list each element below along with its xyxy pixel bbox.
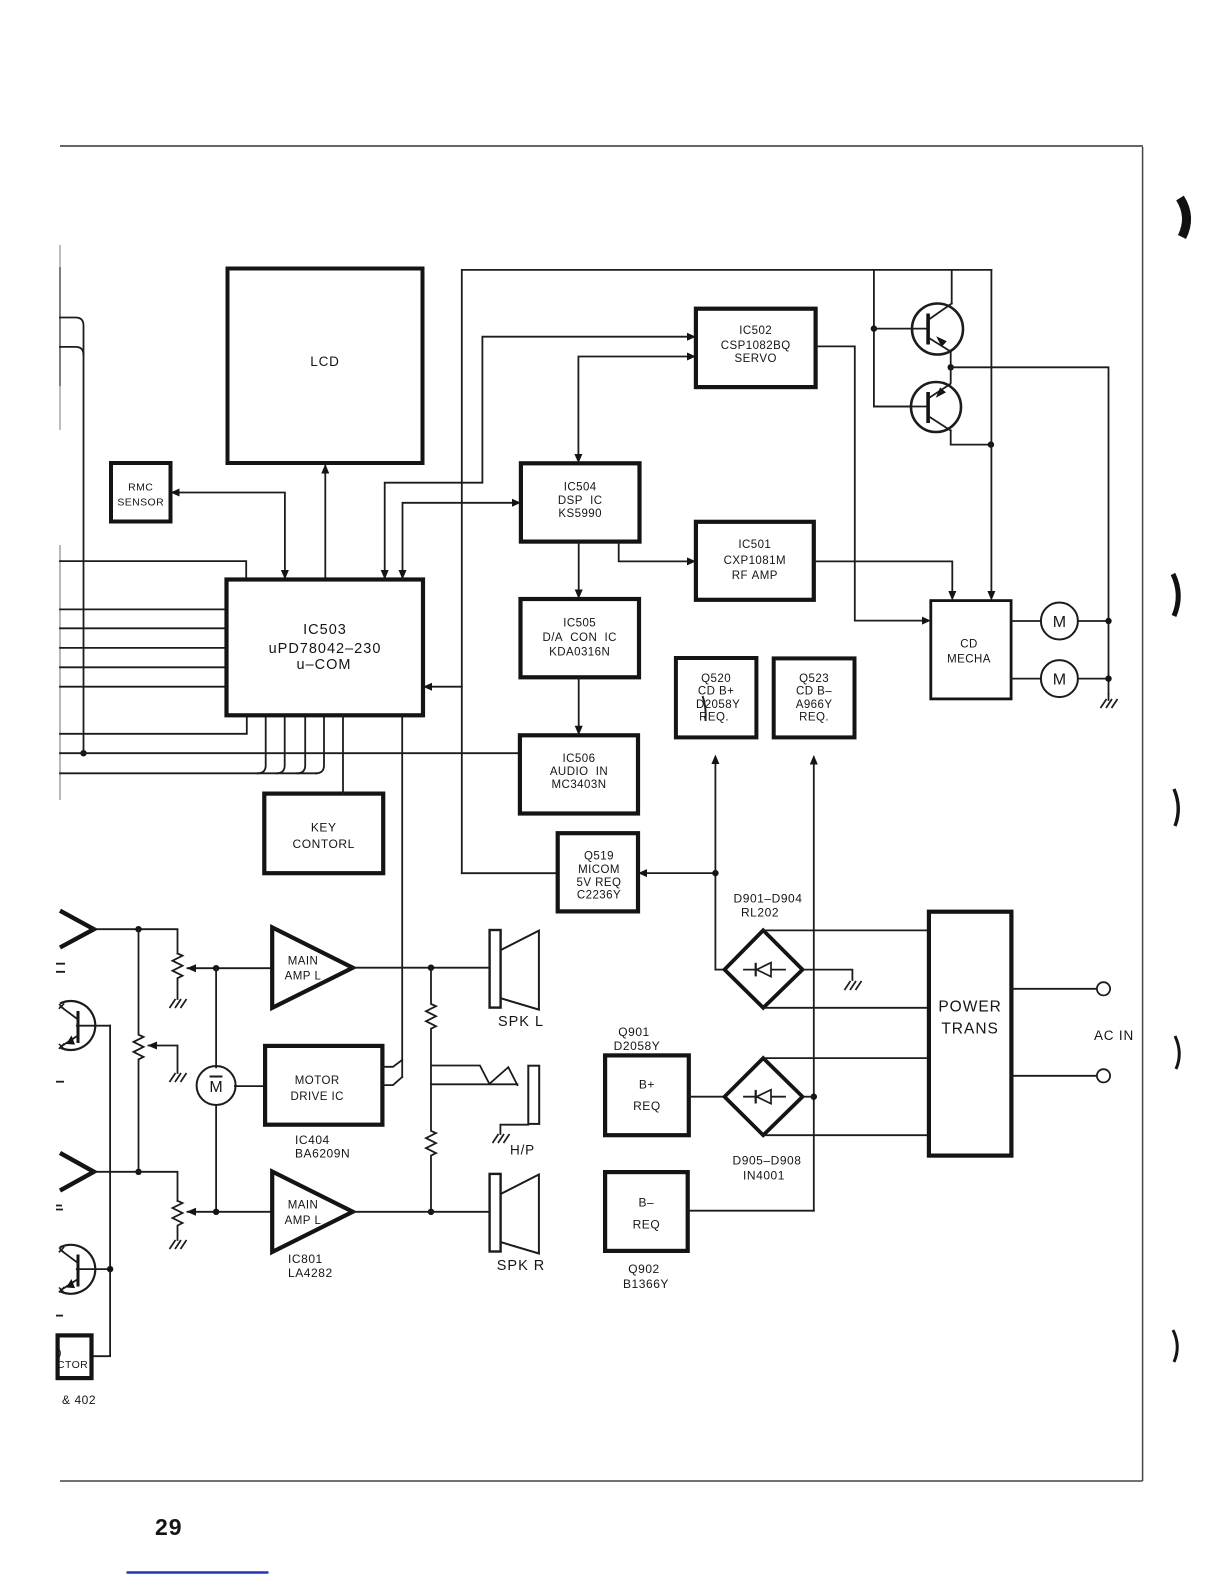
bus return wire from IC503 bottom hooks to left edge <box>60 772 317 774</box>
wire amp2 output to SPK R <box>353 1211 490 1213</box>
node junction M2 <box>1105 675 1111 681</box>
wire IC501 to CD MECHA top <box>814 561 953 595</box>
arrow into LCD <box>321 464 329 474</box>
registration mark 4 <box>1175 1036 1179 1069</box>
wire B- REQ to riser <box>688 1210 814 1212</box>
wire bridge2 bottom to POWER TRANS <box>763 1134 929 1136</box>
wire IC502 to CD MECHA left <box>816 346 922 620</box>
node junction <box>135 926 141 932</box>
svg-text:REQ: REQ <box>633 1218 661 1232</box>
emitter junction wire to right column <box>951 367 1109 694</box>
wire POWER TRANS to AC terminal 2 <box>1011 1075 1096 1077</box>
hook wire 1 from IC503 bottom <box>258 715 266 773</box>
B+ REQ block Q901 <box>605 1055 689 1135</box>
svg-text:M: M <box>209 1079 222 1096</box>
curved feeder 2 <box>60 347 84 355</box>
svg-text:MC3403N: MC3403N <box>552 779 607 791</box>
svg-text:IC505: IC505 <box>563 618 596 630</box>
svg-text:RF AMP: RF AMP <box>732 570 778 582</box>
cut transistor QB left edge <box>59 1245 95 1294</box>
svg-text:& 402: & 402 <box>62 1393 96 1407</box>
node junction on Q520 riser <box>712 870 718 876</box>
wire bridge2 right to riser <box>803 1096 814 1098</box>
wire CD MECHA to motor M1 <box>1011 620 1041 622</box>
CD MECHA block <box>931 601 1011 699</box>
wire POWER TRANS to AC terminal 1 <box>1011 988 1096 990</box>
resistor R to headphone jack <box>426 968 489 1085</box>
wire wiper node to motor M <box>215 968 217 1067</box>
arrow into IC505 top <box>575 590 583 600</box>
svg-text:MAIN: MAIN <box>288 1200 319 1212</box>
svg-text:A966Y: A966Y <box>796 699 833 711</box>
svg-text:29: 29 <box>155 1514 183 1540</box>
svg-text:IC503: IC503 <box>303 622 347 638</box>
svg-text:LCD: LCD <box>310 354 339 369</box>
svg-text:IC801: IC801 <box>288 1252 323 1266</box>
Q1 collector wire up <box>951 270 953 304</box>
svg-text:CD B–: CD B– <box>796 686 832 698</box>
wire bus 1 into IC503 left <box>60 608 227 610</box>
QA collector wire <box>77 1025 110 1027</box>
vertical wire to connector <box>92 1026 111 1357</box>
motor M1 <box>1041 603 1078 640</box>
svg-text:Q523: Q523 <box>799 673 829 685</box>
riser joins bridge1 left vertex <box>715 969 724 971</box>
svg-text:M: M <box>1053 614 1066 631</box>
node junction amp1 out <box>428 965 434 971</box>
ground VR1 <box>170 999 187 1008</box>
svg-text:REQ.: REQ. <box>699 712 729 724</box>
node junction wiper lower <box>213 1209 219 1215</box>
node junction lower <box>135 1169 141 1175</box>
POWER TRANS block <box>929 912 1012 1156</box>
svg-text:IN4001: IN4001 <box>743 1169 785 1183</box>
node junction at Q1 base <box>871 325 877 331</box>
base wire Q2 <box>874 406 926 408</box>
svg-text:REQ: REQ <box>633 1099 661 1113</box>
wiper arrow VR2 to ground <box>149 1046 178 1074</box>
wire B+ REQ to bridge2 <box>689 1096 725 1098</box>
node junction bridge2 right <box>811 1094 817 1100</box>
svg-text:AMP L: AMP L <box>285 971 322 983</box>
IC501 RF AMP block <box>696 522 814 600</box>
stub pin 1 <box>382 1060 402 1067</box>
cut component dash marks 3 <box>56 1206 63 1210</box>
wire bus 2 into IC503 left <box>60 627 227 629</box>
cut component dash mark 2 <box>56 1081 64 1083</box>
arrow into IC502 left pin2 <box>687 353 696 361</box>
svg-text:D/A CON IC: D/A CON IC <box>542 632 616 644</box>
registration mark 2 <box>1173 574 1178 616</box>
svg-text:Q520: Q520 <box>701 673 731 685</box>
node junction on IC506 wire <box>80 750 86 756</box>
svg-text:AC IN: AC IN <box>1094 1028 1134 1043</box>
svg-text:IC501: IC501 <box>738 539 771 551</box>
potentiometer VR3 <box>173 1201 183 1240</box>
svg-text:CXP1081M: CXP1081M <box>724 555 786 567</box>
wire IC504 to IC505 <box>578 542 580 594</box>
wiper arrow VR3 to amp input <box>188 1211 273 1213</box>
ground for motor return <box>1101 694 1118 708</box>
speaker SPK R <box>490 1174 546 1274</box>
wire bridge1 bottom to POWER TRANS <box>763 1007 929 1009</box>
svg-text:CD: CD <box>960 639 978 651</box>
potentiometer VR1 <box>173 954 183 1000</box>
wire bus 3 into IC503 left <box>60 647 227 649</box>
jack sleeve to ground <box>500 1125 528 1134</box>
svg-text:Q902: Q902 <box>628 1262 660 1276</box>
IC506 audio block <box>520 735 638 813</box>
KEY CONTORL block <box>264 794 383 874</box>
ground at bridge1 <box>845 981 862 990</box>
arrow into IC502 left pin1 <box>687 333 696 341</box>
IC502 servo block <box>696 309 816 387</box>
wire to transistor bases <box>874 270 911 407</box>
page frame right line <box>1142 147 1144 1481</box>
svg-text:IC404: IC404 <box>295 1133 330 1147</box>
arrow into IC504 left <box>512 499 521 507</box>
page frame left line (faint scan edge) <box>59 245 61 430</box>
vertical wire with resistor R to lower channel <box>134 929 144 1172</box>
riser wire to Q520 with arrow <box>714 763 716 970</box>
svg-text:AMP L: AMP L <box>285 1215 322 1227</box>
wire down to CD MECHA top pin2 <box>990 270 992 595</box>
left vertical bus wire with curved feeders <box>60 318 84 754</box>
svg-text:B–: B– <box>639 1196 655 1210</box>
svg-text:LA4282: LA4282 <box>288 1266 333 1280</box>
bridge rectifier D905-D908 <box>725 1058 803 1135</box>
Q2 collector wire to right column <box>951 431 991 445</box>
svg-text:DSP IC: DSP IC <box>558 495 603 507</box>
MOTOR DRIVE IC block <box>265 1046 382 1125</box>
svg-text:AUDIO IN: AUDIO IN <box>550 766 608 778</box>
B- REQ block Q902 <box>605 1172 688 1251</box>
motor M2 <box>1041 660 1078 697</box>
arrow into CD MECHA top pin1 <box>948 591 956 601</box>
arrow into IC503 top from RMC wire <box>281 570 289 580</box>
ground H/P <box>493 1134 510 1143</box>
hook wire 2 from IC503 bottom <box>277 715 285 773</box>
svg-text:POWER: POWER <box>938 999 1002 1016</box>
svg-text:Q519: Q519 <box>584 851 614 863</box>
cut component dash marks 1 <box>56 964 65 972</box>
svg-text:SENSOR: SENSOR <box>117 497 164 509</box>
arrow into IC501 left <box>687 557 696 565</box>
bridge rectifier D901-D904 <box>725 930 803 1008</box>
svg-text:B1366Y: B1366Y <box>623 1277 669 1291</box>
wire CD MECHA to motor M2 <box>1011 678 1041 680</box>
svg-text:SPK L: SPK L <box>498 1014 544 1030</box>
AC terminal 1 <box>1097 982 1110 995</box>
svg-text:IC504: IC504 <box>564 482 597 494</box>
connector block cut at edge <box>57 1335 92 1378</box>
MAIN AMP L lower triangle IC801 <box>272 1172 353 1253</box>
IC504 DSP block <box>521 463 640 541</box>
RMC SENSOR block <box>111 463 171 522</box>
cut component dash mark 4 <box>56 1315 63 1317</box>
page frame bottom line <box>60 1480 1143 1482</box>
page frame top line <box>60 145 1143 147</box>
arrow into IC503 from IC502 wire <box>381 570 389 580</box>
svg-text:D901–D904: D901–D904 <box>734 892 803 906</box>
blue underline mark <box>127 1571 269 1574</box>
svg-text:REQ.: REQ. <box>799 712 829 724</box>
arrow into CD MECHA left <box>922 617 931 625</box>
svg-text:CTOR: CTOR <box>57 1359 88 1371</box>
svg-text:CONTORL: CONTORL <box>293 837 355 851</box>
transistor Q2 <box>911 382 961 432</box>
IC503 u-COM block <box>227 580 424 716</box>
wire bus 5 into IC503 left <box>60 686 227 688</box>
svg-text:KDA0316N: KDA0316N <box>549 647 610 659</box>
svg-text:MOTOR: MOTOR <box>295 1075 340 1087</box>
wire bridge1 top to POWER TRANS <box>763 929 929 931</box>
cut amp triangle lower left <box>60 1153 94 1191</box>
node junction emitters <box>948 364 954 370</box>
node junction amp2 out <box>428 1209 434 1215</box>
node junction QB <box>107 1266 113 1272</box>
wire to volume pot 2 <box>94 1172 178 1201</box>
wire bridge2 top to POWER TRANS <box>763 1057 929 1059</box>
base wire Q1 <box>874 328 926 330</box>
Q519 block <box>558 833 638 911</box>
svg-text:u–COM: u–COM <box>297 657 352 673</box>
wire M to MOTOR DRIVE IC <box>235 1085 265 1087</box>
svg-text:uPD78042–230: uPD78042–230 <box>269 641 382 657</box>
svg-text:B+: B+ <box>639 1078 655 1092</box>
speaker SPK L <box>490 930 544 1030</box>
AC terminal 2 <box>1097 1069 1110 1082</box>
transistor Q1 <box>912 304 963 355</box>
arrow into IC504 top <box>574 454 582 463</box>
svg-text:DRIVE IC: DRIVE IC <box>290 1091 343 1103</box>
wire IC503 to KEY CONTORL <box>342 715 344 793</box>
registration mark 5 <box>1173 1330 1177 1362</box>
Q520 block <box>676 658 757 737</box>
svg-text:5V REQ: 5V REQ <box>577 877 622 889</box>
riser wire to Q523 with arrow <box>813 764 815 1211</box>
svg-text:TRANS: TRANS <box>941 1021 999 1038</box>
long wire from left edge to IC506 <box>60 752 520 754</box>
svg-text:): ) <box>58 1347 62 1359</box>
svg-text:IC506: IC506 <box>563 753 596 765</box>
cut amp triangle top left <box>60 911 94 948</box>
branch arrow into IC503 right edge <box>432 686 462 688</box>
svg-text:C2236Y: C2236Y <box>577 890 621 902</box>
svg-text:KS5990: KS5990 <box>558 508 602 520</box>
svg-text:BA6209N: BA6209N <box>295 1147 350 1161</box>
hook wire 4 from IC503 bottom <box>316 715 324 773</box>
svg-text:MICOM: MICOM <box>578 864 620 876</box>
wire IC505 to IC506 <box>578 677 580 730</box>
stub pin 2 <box>382 1077 402 1085</box>
Q2 emitter wire to node <box>950 367 951 384</box>
IC505 D/A block <box>521 599 640 677</box>
wiper arrow VR1 to amp input <box>188 967 273 969</box>
page frame left line darker segment <box>59 267 61 386</box>
wire bridge1 right to ground <box>803 970 853 980</box>
svg-text:RL202: RL202 <box>741 906 779 920</box>
svg-text:CSP1082BQ: CSP1082BQ <box>721 340 791 352</box>
wire M below to lower wiper node <box>215 1105 217 1212</box>
wire IC503 top to IC504 left <box>403 503 513 580</box>
svg-text:RMC: RMC <box>128 482 153 494</box>
svg-text:MAIN: MAIN <box>288 956 319 968</box>
arrow into IC506 top <box>575 726 583 736</box>
ground VR2 <box>170 1073 187 1082</box>
hook wire 3 from IC503 bottom <box>297 715 305 773</box>
wire IC502 to IC503 top pin <box>385 337 687 580</box>
svg-text:IC502: IC502 <box>739 325 772 337</box>
wire to volume pot 1 <box>94 929 178 953</box>
svg-text:Q901: Q901 <box>618 1025 650 1039</box>
arrow into Q519 right <box>647 872 715 874</box>
wire IC503 to LCD <box>324 464 326 580</box>
svg-text:M: M <box>1053 672 1066 689</box>
wire IC504 to IC501 <box>619 542 687 562</box>
MAIN AMP L upper triangle <box>272 927 353 1008</box>
wire from left edge into IC503 bottom left pin <box>60 715 247 734</box>
svg-text:D2058Y: D2058Y <box>696 699 740 711</box>
wire M1 to right column <box>1078 620 1109 622</box>
motor M with bar <box>197 1066 236 1105</box>
wire IC504 top to IC502 left pin2 <box>578 357 687 459</box>
arrow into RMC SENSOR <box>171 489 180 497</box>
Q1 emitter wire to node <box>950 352 952 368</box>
node junction collector <box>988 441 994 447</box>
registration mark 1 <box>1180 198 1187 237</box>
long top wire from node A to transistor column <box>462 270 992 873</box>
arrow into CD MECHA top pin2 <box>987 591 995 601</box>
node junction wiper <box>213 965 219 971</box>
svg-text:H/P: H/P <box>510 1143 535 1158</box>
wire into Q519 left <box>462 872 558 874</box>
svg-text:KEY: KEY <box>311 821 337 835</box>
Q523 block <box>774 658 855 737</box>
headphone jack body <box>528 1066 539 1124</box>
wire RMC sensor from IC503 top <box>179 493 285 580</box>
svg-text:SERVO: SERVO <box>735 353 777 365</box>
headphone jack spring contact <box>489 1067 517 1085</box>
arrow into IC503 from IC504 wire <box>399 570 407 580</box>
svg-text:SPK R: SPK R <box>497 1258 546 1274</box>
wire from left edge into IC503 top pin <box>60 561 246 579</box>
node junction M1 <box>1105 618 1111 624</box>
ground VR3 <box>170 1240 187 1249</box>
wire amp1 output to SPK L <box>353 967 490 969</box>
wire bus 4 into IC503 left <box>60 666 227 668</box>
svg-text:D2058Y: D2058Y <box>614 1039 661 1053</box>
wire from IC503 down to MOTOR DRIVE IC pins <box>401 715 403 1077</box>
wire M2 to right column <box>1078 678 1109 680</box>
svg-text:D905–D908: D905–D908 <box>733 1154 802 1168</box>
registration mark 3 <box>1174 789 1178 826</box>
lower jack wire with resistor to amp2 output <box>426 1084 517 1212</box>
svg-text:MECHA: MECHA <box>947 654 991 666</box>
QB collector wire <box>77 1268 110 1270</box>
cut transistor QA left edge <box>59 1001 95 1050</box>
LCD block <box>228 269 423 464</box>
